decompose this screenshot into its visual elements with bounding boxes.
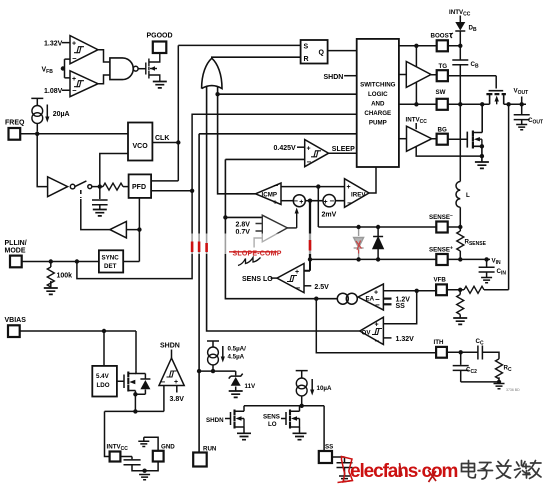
svg-text:R: R bbox=[304, 56, 309, 63]
svg-text:3736 BD: 3736 BD bbox=[506, 388, 520, 392]
svg-text:−: − bbox=[347, 198, 352, 207]
svg-text:LDO: LDO bbox=[97, 382, 110, 389]
svg-text:SHDN: SHDN bbox=[324, 74, 344, 81]
svg-text:10µA: 10µA bbox=[317, 385, 332, 392]
svg-text:2.5V: 2.5V bbox=[314, 284, 329, 291]
svg-text:SHDN: SHDN bbox=[206, 417, 224, 424]
svg-text:VCO: VCO bbox=[133, 143, 149, 150]
svg-text:Q: Q bbox=[319, 49, 325, 56]
svg-text:elecfans·com: elecfans·com bbox=[350, 461, 457, 482]
svg-text:SWITCHING: SWITCHING bbox=[360, 82, 396, 89]
svg-text:AND: AND bbox=[371, 101, 385, 108]
svg-text:+: + bbox=[347, 184, 351, 191]
svg-text:DET: DET bbox=[104, 263, 117, 270]
svg-text:SENSE−: SENSE− bbox=[429, 213, 453, 221]
svg-text:0.5µA/: 0.5µA/ bbox=[228, 346, 247, 353]
svg-text:−: − bbox=[375, 336, 380, 345]
svg-text:2mV: 2mV bbox=[322, 211, 337, 218]
svg-text:SHDN: SHDN bbox=[160, 343, 180, 350]
svg-text:20µA: 20µA bbox=[53, 111, 70, 118]
svg-text:−: − bbox=[330, 197, 335, 206]
svg-text:0.425V: 0.425V bbox=[274, 145, 297, 152]
svg-text:1.08V: 1.08V bbox=[44, 88, 63, 95]
svg-text:LOGIC: LOGIC bbox=[368, 91, 388, 98]
svg-text:SW: SW bbox=[436, 89, 446, 96]
svg-text:CHARGE: CHARGE bbox=[364, 110, 391, 117]
svg-text:+: + bbox=[295, 269, 299, 276]
svg-text:GND: GND bbox=[161, 444, 175, 451]
svg-text:IREV: IREV bbox=[351, 192, 366, 199]
svg-text:PGOOD: PGOOD bbox=[147, 33, 173, 40]
svg-text:−: − bbox=[296, 283, 301, 292]
svg-text:5.4V: 5.4V bbox=[96, 373, 110, 380]
svg-text:11V: 11V bbox=[245, 383, 257, 390]
svg-text:−: − bbox=[274, 181, 279, 190]
svg-text:+: + bbox=[273, 200, 277, 207]
svg-text:100k: 100k bbox=[57, 273, 73, 280]
svg-text:CLK: CLK bbox=[155, 135, 169, 142]
svg-text:1.32V: 1.32V bbox=[396, 336, 415, 343]
svg-text:L: L bbox=[466, 192, 470, 199]
svg-text:−: − bbox=[375, 301, 380, 310]
svg-text:OV: OV bbox=[362, 329, 372, 336]
svg-text:FREQ: FREQ bbox=[5, 120, 25, 127]
svg-text:SENS: SENS bbox=[263, 413, 280, 420]
svg-text:VFB: VFB bbox=[434, 277, 447, 284]
svg-text:−: − bbox=[307, 158, 312, 167]
svg-text:+: + bbox=[72, 41, 76, 48]
svg-text:MODE: MODE bbox=[5, 248, 26, 255]
svg-text:4.5µA: 4.5µA bbox=[228, 353, 245, 360]
svg-text:SLEEP: SLEEP bbox=[332, 146, 355, 153]
svg-text:−: − bbox=[72, 54, 77, 63]
svg-text:+: + bbox=[174, 379, 178, 386]
svg-text:ICMP: ICMP bbox=[262, 192, 277, 199]
svg-text:+: + bbox=[324, 199, 328, 206]
svg-text:SENS LO: SENS LO bbox=[242, 276, 273, 283]
svg-text:LO: LO bbox=[268, 421, 277, 428]
svg-text:PFD: PFD bbox=[132, 184, 146, 191]
svg-text:+: + bbox=[375, 321, 379, 328]
svg-text:SS: SS bbox=[396, 303, 406, 310]
svg-text:SS: SS bbox=[325, 444, 333, 451]
svg-text:S: S bbox=[304, 44, 309, 51]
svg-text:PUMP: PUMP bbox=[369, 120, 387, 127]
svg-text:BOOST: BOOST bbox=[431, 33, 453, 40]
svg-text:PLLIN/: PLLIN/ bbox=[5, 240, 27, 247]
svg-text:TG: TG bbox=[439, 63, 448, 70]
svg-text:VBIAS: VBIAS bbox=[5, 317, 27, 324]
svg-text:EA: EA bbox=[366, 295, 375, 302]
svg-text:−: − bbox=[293, 197, 298, 206]
svg-text:3.8V: 3.8V bbox=[170, 396, 185, 403]
svg-text:SYNC: SYNC bbox=[102, 255, 120, 262]
svg-text:1.32V: 1.32V bbox=[44, 40, 63, 47]
svg-text:2.8V: 2.8V bbox=[236, 222, 251, 229]
svg-text:+: + bbox=[299, 199, 303, 206]
svg-text:SENSE+: SENSE+ bbox=[429, 246, 453, 254]
svg-text:+: + bbox=[72, 76, 76, 83]
svg-text:−: − bbox=[161, 377, 166, 386]
svg-text:BG: BG bbox=[438, 127, 447, 134]
svg-text:+: + bbox=[307, 145, 311, 152]
svg-text:ITH: ITH bbox=[434, 339, 444, 346]
